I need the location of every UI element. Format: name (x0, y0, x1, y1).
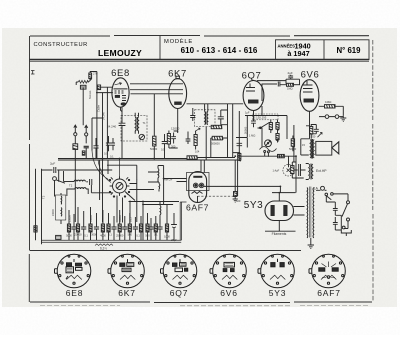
wire 6K7 cathode (177, 109, 179, 134)
label 6E8 (111, 68, 130, 79)
svg-text:0,1: 0,1 (154, 233, 158, 237)
antenna terminal T (85, 125, 88, 143)
svg-text:24.240: 24.240 (102, 112, 106, 120)
svg-text:1MΩ: 1MΩ (325, 100, 332, 104)
capacitor near T2 (190, 108, 195, 121)
svg-text:610 - 613 - 614 - 616: 610 - 613 - 614 - 616 (181, 46, 258, 55)
rotated wire labels (88, 90, 248, 134)
resistor det left lower (238, 154, 241, 162)
tube 6V6 (300, 80, 319, 112)
socket 6K7 (108, 254, 144, 288)
speaker (316, 133, 339, 156)
svg-text:0,1: 0,1 (104, 152, 108, 156)
svg-text:0,25: 0,25 (129, 217, 132, 222)
capacitor stub (288, 156, 290, 167)
band switch contact (53, 177, 65, 197)
socket 6Q7 (161, 254, 197, 288)
header table (30, 36, 370, 62)
svg-text:1 MΩ: 1 MΩ (249, 134, 255, 138)
svg-text:0,1: 0,1 (161, 148, 165, 152)
capacitor 6K7 cathode bypass (169, 131, 178, 148)
border top (30, 35, 369, 38)
mains selector (325, 193, 350, 229)
svg-text:3000: 3000 (91, 233, 97, 237)
dashed sensitivity box (253, 114, 279, 120)
svg-text:à 1947: à 1947 (287, 49, 309, 58)
socket 6V6 (210, 254, 246, 288)
ground small (233, 199, 238, 202)
tube 6AF7 magic eye (189, 172, 207, 203)
capacitor 1uF electrolytic (283, 164, 294, 176)
padder caps mid (157, 166, 160, 183)
antenna terminal A (74, 125, 77, 144)
label ANNEES 1940 (278, 42, 311, 51)
svg-text:S 130.295: S 130.295 (254, 116, 267, 120)
label socket 6V6 (220, 288, 238, 298)
socket 6E8 (55, 254, 91, 288)
resistor 500000 horizontal (211, 136, 228, 157)
svg-text:Temoin: Temoin (88, 90, 92, 99)
phono jack circles (319, 115, 343, 119)
trimmer A (73, 144, 78, 222)
resistor 6V6 cathode (310, 124, 313, 139)
svg-text:5000: 5000 (66, 234, 72, 238)
resistor on AVC bus (187, 156, 198, 159)
capacitor Cd (111, 216, 116, 240)
resistor Ra (67, 210, 70, 240)
svg-text:ANNÉES: ANNÉES (278, 43, 296, 48)
capacitor Cb (81, 211, 86, 240)
label a 1947 (287, 49, 309, 58)
wave switch small (195, 128, 200, 131)
mains caps (326, 196, 341, 230)
header bottom double line (30, 60, 370, 62)
svg-text:50000: 50000 (119, 215, 122, 222)
wire left edge (36, 169, 42, 245)
svg-text:1µF: 1µF (245, 111, 250, 115)
box below coil (56, 235, 61, 239)
resistor Rh (139, 216, 142, 240)
tube 5Y3 rectifier (265, 201, 294, 221)
capacitor osc right (86, 179, 112, 193)
svg-text:50000: 50000 (289, 147, 297, 151)
capacitor Ca (71, 214, 76, 240)
svg-text:12000: 12000 (171, 127, 180, 131)
resistor on drop (234, 192, 237, 197)
tube 6K7 (169, 76, 187, 108)
svg-text:1000: 1000 (164, 235, 170, 239)
svg-text:6,3 v: 6,3 v (100, 246, 107, 250)
border right (372, 40, 374, 302)
resistor left edge bottom (34, 226, 37, 232)
resistor det right (291, 136, 294, 152)
capacitor 6K7 screen (186, 132, 191, 145)
ground bus (42, 202, 187, 246)
svg-text:5Y3: 5Y3 (244, 200, 264, 211)
svg-text:500000: 500000 (211, 142, 220, 146)
svg-text:270: 270 (93, 72, 98, 76)
filter cap big (294, 164, 305, 176)
wire 6V6 plate down (306, 112, 310, 139)
rotary band switch (109, 176, 129, 197)
wire 6Q7 grid verticals (228, 104, 241, 158)
resistor box right of T2 (211, 125, 222, 128)
ground phono (340, 115, 346, 121)
svg-text:0,1: 0,1 (108, 233, 112, 237)
label socket 6AF7 (317, 288, 341, 298)
wire 6Q7 verticals (239, 106, 262, 160)
label 6Q7 (242, 70, 262, 81)
svg-text:6V6: 6V6 (301, 69, 320, 80)
svg-text:250: 250 (311, 135, 316, 139)
resistor filter (291, 162, 304, 178)
wire 6E8 to 6K7 couplings (130, 84, 183, 94)
svg-text:6E8: 6E8 (66, 288, 84, 298)
svg-text:CONSTRUCTEUR: CONSTRUCTEUR (34, 42, 88, 48)
antenna wires (76, 72, 97, 126)
resistor 1Mohm to phono (319, 105, 344, 116)
label model numbers (181, 46, 258, 55)
label Filaments (272, 232, 287, 236)
IF transformer T1 (121, 113, 147, 141)
resistor det 3 (276, 134, 279, 143)
resistor Rc (89, 207, 92, 240)
capacitor Cf (133, 217, 138, 240)
forest right group (145, 205, 177, 242)
svg-text:1,4µF: 1,4µF (273, 169, 280, 173)
junction bus left (59, 170, 64, 182)
fuse 1A (316, 186, 327, 190)
label 5Y3 (244, 200, 264, 211)
label No 619 (337, 46, 362, 55)
svg-text:6Q7: 6Q7 (170, 288, 188, 298)
svg-text:10000: 10000 (90, 215, 93, 222)
dashed AVC line (198, 195, 238, 197)
label LEMOUZY (98, 48, 142, 58)
field coil Ext HP (306, 164, 313, 180)
svg-text:AM LIF: AM LIF (164, 178, 173, 182)
label 6AF7 (186, 203, 209, 213)
resistor Ri (146, 213, 149, 240)
antenna entry mark (31, 71, 35, 75)
socket 5Y3 (258, 254, 294, 288)
forest labels left (66, 233, 140, 238)
svg-text:6AF7: 6AF7 (186, 203, 209, 213)
padder coil mid 3 (159, 202, 162, 224)
junction dots (96, 92, 297, 206)
oscillator coil upper (63, 180, 85, 181)
socket row (55, 254, 346, 288)
IF transformer T2 (195, 110, 216, 160)
resistor Rj (154, 216, 157, 240)
resistor 50000 mid (153, 94, 156, 159)
svg-text:Ext.HP: Ext.HP (316, 169, 327, 173)
separator line above sockets (30, 250, 302, 252)
oscillator coil box (56, 193, 66, 224)
wire 6E8 verticals down (92, 87, 108, 222)
svg-text:MODÈLE: MODÈLE (164, 38, 193, 45)
resistor det 2 (276, 120, 279, 134)
wire output transformer top (294, 125, 310, 162)
tube labels (111, 68, 319, 213)
label 1A (314, 187, 319, 191)
antenna zigzag resistor (76, 80, 89, 83)
svg-text:T2: T2 (42, 195, 46, 199)
svg-text:6V6: 6V6 (220, 288, 238, 298)
label Ext HP (316, 169, 327, 173)
svg-text:N° 619: N° 619 (337, 46, 362, 55)
resistor Rg (128, 213, 131, 240)
wire 6AF7 grid left (164, 160, 205, 182)
svg-text:500: 500 (145, 234, 150, 238)
capacitor Cg (148, 218, 153, 240)
capacitor pair T1 left (106, 136, 115, 151)
svg-text:6AF7: 6AF7 (317, 288, 341, 298)
capacitor 1uF detector (251, 117, 256, 128)
capacitor Cc (94, 213, 99, 240)
svg-text:25000: 25000 (116, 234, 124, 238)
oscillator coil lower (67, 188, 88, 196)
svg-text:4000: 4000 (100, 234, 106, 238)
svg-text:1MΩ: 1MΩ (287, 87, 293, 91)
svg-text:2µF: 2µF (288, 71, 293, 75)
capacitor mid (162, 134, 168, 159)
svg-text:300: 300 (171, 145, 176, 149)
detector bus 6Q7 (245, 116, 287, 140)
border left (28, 36, 30, 302)
label 6K7 (168, 69, 187, 80)
capacitor Ci electrolytic (171, 213, 177, 240)
border bottom (30, 302, 372, 306)
capacitor left mid (93, 138, 98, 159)
wire B plus down (204, 156, 296, 201)
svg-text:6K7: 6K7 (118, 288, 136, 298)
svg-text:T2: T2 (69, 184, 73, 188)
shield box 6AF7 (187, 173, 210, 191)
output transformer (310, 139, 314, 159)
oscillator left cap 2uF (42, 167, 113, 173)
svg-text:1A: 1A (314, 187, 319, 191)
antenna coupling box (80, 85, 86, 89)
svg-text:0,1: 0,1 (136, 234, 140, 238)
capacitor Ch (157, 219, 162, 240)
svg-text:5Y3: 5Y3 (269, 288, 287, 298)
capacitor 100 on grid (218, 110, 228, 125)
svg-text:25000: 25000 (69, 215, 72, 222)
power transformer (307, 187, 314, 238)
socket 6AF7 (309, 254, 345, 288)
padder caps mid 2 (158, 182, 161, 192)
capacitor Ce (122, 216, 127, 240)
resistor Rk (165, 205, 168, 240)
svg-text:6Q7: 6Q7 (242, 70, 262, 81)
svg-text:0,1: 0,1 (84, 234, 88, 238)
header divider constructeur/modele (159, 36, 161, 60)
resistor screen dropper (194, 131, 197, 150)
label 6V6 (301, 69, 320, 80)
capacitor 6V6 bypass (311, 125, 319, 134)
label socket 6E8 (66, 288, 84, 298)
switch wires (92, 151, 154, 223)
capacitor det left (237, 143, 243, 145)
mains plug (341, 226, 351, 236)
label socket 6Q7 (170, 288, 188, 298)
svg-text:Filaments: Filaments (272, 232, 287, 236)
forest tiny top labels (52, 209, 132, 222)
wire 6K7 plate to T2 (187, 104, 244, 112)
svg-text:6K7: 6K7 (168, 69, 187, 80)
antenna resistor (89, 73, 92, 80)
wire 6Q7 plate to RC (257, 80, 286, 82)
svg-text:Cadre: Cadre (97, 104, 101, 112)
resistor Rf (118, 210, 121, 240)
label 6.3V (100, 246, 107, 250)
svg-text:LEMOUZY: LEMOUZY (98, 48, 142, 58)
resistor Re (107, 213, 110, 240)
svg-text:50000: 50000 (244, 126, 248, 134)
wire 6E8 grid top (97, 72, 113, 93)
resistor det 1 (269, 120, 272, 134)
trimmer T (82, 146, 88, 158)
lamp temoin on wire (97, 85, 100, 90)
coupling capacitor to 6V6 (262, 82, 286, 102)
svg-text:6E8: 6E8 (111, 68, 130, 79)
resistor Rd (101, 210, 104, 240)
resistor Rb (76, 207, 79, 240)
svg-text:500: 500 (128, 233, 133, 237)
svg-text:20000: 20000 (52, 209, 55, 216)
resistor on B plus line (278, 154, 285, 157)
ground transformer (308, 245, 314, 248)
vertical drop right of 6AF7 (235, 128, 262, 200)
resistor 6K7 cathode (167, 131, 170, 149)
label socket 6K7 (118, 288, 136, 298)
tube 6E8 (112, 78, 129, 112)
capacitor plate decoupling (119, 107, 126, 158)
wire det mid (236, 138, 247, 148)
svg-text:50000: 50000 (150, 147, 158, 151)
trimmer T1 (139, 134, 144, 139)
svg-text:0,1: 0,1 (110, 155, 114, 159)
svg-text:500: 500 (236, 199, 241, 203)
label MODELE (164, 38, 193, 45)
AVC bus (58, 156, 296, 160)
label CONSTRUCTEUR (34, 42, 88, 48)
volume potentiometer (260, 140, 277, 157)
wires padder (148, 166, 179, 205)
wire 5Y3 to transformer (265, 207, 311, 246)
oscillator horizontals (107, 165, 164, 204)
svg-text:2µF: 2µF (50, 162, 55, 166)
forest left group (52, 207, 142, 240)
switch detector (258, 123, 272, 129)
forest labels right (145, 233, 177, 243)
oscillator verticals (130, 179, 143, 240)
svg-text:24.240: 24.240 (107, 125, 117, 129)
label socket 5Y3 (269, 288, 287, 298)
annees box (276, 40, 370, 60)
svg-text:104: 104 (195, 150, 200, 154)
svg-text:20000: 20000 (74, 233, 82, 237)
labels small (42, 71, 333, 203)
grid RC 6V6 (286, 75, 300, 87)
tube 6Q7 (243, 81, 264, 111)
